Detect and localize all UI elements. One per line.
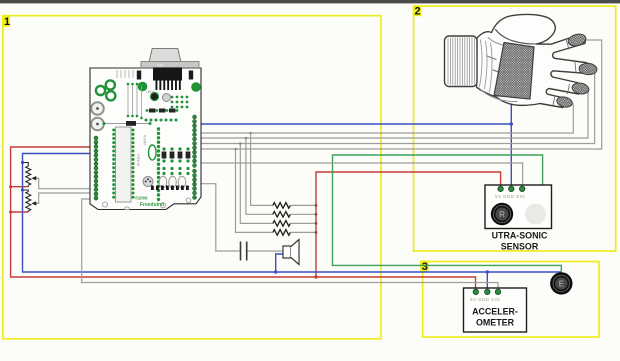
silkscreen marks top-left (117, 70, 133, 78)
electrolytic capacitor C3 (91, 118, 104, 131)
potentiometer R1 zigzag (23, 163, 31, 187)
junction nodes resistors to red bus (315, 204, 318, 207)
label 2 (413, 5, 422, 16)
junction node blue accelerometer (486, 270, 489, 273)
right pin header column (193, 115, 197, 199)
wire gray finger 4 (index) glove loop to board (196, 40, 602, 149)
svg-text:SENSOR: SENSOR (501, 241, 539, 251)
wire blue glove palm to ultrasonic GND pin (510, 96, 512, 186)
component block Q group (162, 147, 191, 162)
potentiometer R2 zigzag (23, 190, 31, 212)
black header row bottom (151, 186, 189, 191)
wire gray capacitor feed from board to speaker (196, 184, 240, 251)
svg-text:3: 3 (422, 261, 428, 273)
left pin header column (94, 136, 98, 200)
resistor R5 drop and body row 3 (240, 144, 316, 224)
accelerometer pin pads (473, 289, 478, 294)
label 3 (420, 261, 429, 272)
inner header column (157, 127, 160, 201)
wire red 5V pull-up bus to ultrasonic 5V pin (316, 172, 501, 277)
green power LED circles (138, 82, 148, 92)
svg-text:Arduino: Arduino (137, 154, 141, 166)
svg-text:5V GND SIG: 5V GND SIG (495, 194, 525, 199)
speaker SP1 (283, 246, 291, 258)
glove fingertip pad middle (579, 63, 598, 75)
svg-text:ACCELER-: ACCELER- (472, 307, 518, 317)
svg-text:©2009: ©2009 (135, 196, 148, 201)
svg-text:LED1: LED1 (146, 90, 155, 94)
junction node blue top (510, 122, 513, 125)
wire green ultrasonic transducer to earphone E (333, 155, 562, 274)
earphone E (550, 272, 572, 294)
wire blue GND left bus: board to bottom rail to accelerometer GND and earphone E (23, 154, 562, 273)
mounting holes (103, 202, 108, 207)
electrolytic capacitor C2 (91, 102, 104, 115)
wire red 5V left bus: board to bottom rail to accelerometer 5V (11, 147, 476, 290)
svg-text:E: E (559, 279, 565, 288)
wire gray ultrasonic SIG from board (196, 163, 523, 186)
capacitors C4-C6 (159, 176, 167, 188)
wire gray finger 3 (middle) glove loop to board (196, 67, 595, 144)
DIP socket pin pads (112, 129, 134, 199)
diode D1 (104, 123, 150, 125)
junction nodes gray drops (249, 132, 252, 135)
svg-text:2: 2 (415, 6, 421, 18)
potentiometer R2 wiper arrow (31, 201, 36, 205)
junction node red bottom rail (314, 275, 317, 278)
label 1 (2, 16, 10, 27)
svg-text:5V GND SIG: 5V GND SIG (470, 297, 500, 302)
svg-text:OMETER: OMETER (476, 318, 515, 328)
glove thumb crease (496, 30, 537, 45)
pad cluster upper right (171, 96, 189, 109)
finger crease lines (553, 40, 576, 106)
wire gray potentiometer R2 wiper to board (34, 193, 96, 203)
wire blue branch to accelerometer GND pin (486, 272, 488, 290)
glove wrist scallops (480, 40, 493, 92)
region box 1 (yellow) (3, 16, 381, 339)
glove cuff ribbed (445, 36, 478, 87)
resistor R3 drop and body row 1 (251, 133, 316, 205)
capacitor C1 plates (241, 242, 247, 261)
transistor T1 (143, 177, 153, 187)
svg-text:R: R (499, 210, 505, 219)
diode row D4-D6 (146, 109, 179, 113)
glove fingertip pad pinky (556, 95, 574, 108)
wire gray capacitor to speaker (247, 250, 283, 252)
small pads row y118 (145, 119, 178, 122)
glove shading strokes (487, 56, 503, 74)
svg-text:Freeduino: Freeduino (140, 202, 164, 208)
serial connector J1 black pin block (153, 68, 182, 81)
resistor R6 drop and body row 4 (236, 149, 317, 232)
wire gray finger 2 (ring) glove loop to board (196, 87, 588, 138)
ultrasonic pin pads (498, 186, 503, 191)
wire gray accelerometer SIG from board bottom rail (82, 199, 498, 290)
wire blue board top to glove/ultrasonic GND junction (196, 123, 511, 125)
ultrasonic transducer (light) (525, 204, 546, 225)
svg-text:UTRA-SONIC: UTRA-SONIC (492, 231, 548, 241)
arduino board U1 outline (90, 68, 201, 210)
region box 3 (yellow) (423, 262, 599, 338)
glove fingertip pad index (567, 32, 587, 47)
glove crosshatch band (494, 43, 534, 100)
LED D2 (151, 93, 159, 101)
junction node blue pot1 top (21, 161, 24, 164)
wire blue speaker return (276, 254, 283, 272)
wire red tick to potentiometer R2 bottom (11, 211, 29, 213)
accelerometer module U3 box (464, 288, 527, 332)
resistor R4 drop and body row 2 (246, 138, 316, 214)
junction node blue bottom speaker (274, 270, 277, 273)
junction node blue pot2 top (21, 188, 24, 191)
potentiometer R1 wiper arrow (31, 176, 36, 180)
wire gray finger 1 (pinky) glove loop to board (196, 100, 573, 133)
resistor leads vertical (128, 84, 142, 118)
region box 2 (yellow) (414, 6, 616, 251)
green ring pads top-left (96, 86, 105, 95)
ultrasonic sensor module U2 box (485, 185, 552, 229)
svg-text:1: 1 (4, 16, 10, 28)
serial connector J1 shell (149, 49, 181, 63)
ultrasonic receiver R (491, 203, 513, 225)
glove hand body with fingers (477, 14, 591, 107)
top dark bar (0, 0, 620, 3)
connector side posts (137, 71, 141, 80)
LED D3 (163, 94, 171, 102)
wire gray potentiometer R1 wiper to board (34, 178, 96, 189)
glove fingertip pad ring (571, 82, 590, 96)
pad grid mid-right (162, 167, 189, 175)
wire red tick to potentiometer R1 bottom (11, 186, 29, 188)
svg-text:16MHz: 16MHz (143, 134, 147, 145)
DIP socket IC1 (116, 127, 132, 202)
junction node red pot ticks (9, 185, 12, 188)
svg-text:T·S: T·S (157, 64, 163, 68)
crystal Y1 (149, 145, 157, 160)
